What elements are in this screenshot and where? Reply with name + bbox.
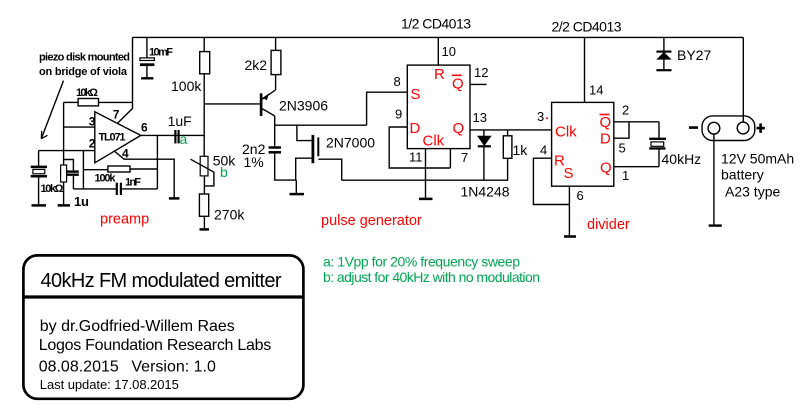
ground (pin 4) <box>169 197 180 200</box>
flip-flop U2 2/2 CD4013 box <box>552 102 614 186</box>
svg-text:2: 2 <box>622 103 629 118</box>
svg-text:BY27: BY27 <box>677 47 711 63</box>
svg-text:by dr.Godfried-Willem Raes: by dr.Godfried-Willem Raes <box>40 318 235 335</box>
ground (divider) <box>564 235 576 238</box>
svg-text:R: R <box>434 66 445 83</box>
resistor 100k (from rail) <box>200 37 210 156</box>
resistor 10kO feedback <box>64 99 133 106</box>
op-amp U3 TL071 <box>95 112 141 163</box>
svg-text:10kΩ: 10kΩ <box>76 87 98 99</box>
piezo disk annotation arrow <box>41 81 63 139</box>
wire pin 4 to ground <box>115 152 174 198</box>
label pin 3 (U2) <box>546 117 548 119</box>
wire op-amp pin 2 <box>39 150 95 152</box>
svg-text:10kΩ: 10kΩ <box>41 183 64 195</box>
title box <box>23 255 303 398</box>
flip-flop U1 1/2 CD4013 box <box>407 65 470 149</box>
svg-text:2N7000: 2N7000 <box>326 135 375 151</box>
svg-text:10: 10 <box>442 44 456 59</box>
svg-text:08.08.2015: 08.08.2015 <box>39 359 119 376</box>
svg-text:11: 11 <box>409 150 423 165</box>
wire bottom rail (pulse generator) <box>342 179 508 181</box>
svg-text:Q: Q <box>600 114 612 131</box>
wire pin 7 <box>449 149 451 168</box>
resistor 10kO (input bias) <box>58 102 70 205</box>
wire pin 10 to rail <box>437 37 439 65</box>
wire op-amp pin 3 <box>64 126 95 128</box>
svg-text:D: D <box>410 120 421 137</box>
diode BY27 <box>656 37 671 70</box>
wire pin 9 D loop <box>389 127 450 168</box>
wire feedback vertical <box>156 135 158 189</box>
svg-text:S: S <box>411 86 421 103</box>
svg-text:40kHz: 40kHz <box>662 151 702 167</box>
svg-text:b: b <box>220 164 228 180</box>
wire pin 6 S to ground <box>568 186 570 235</box>
svg-text:40kHz FM modulated emitter: 40kHz FM modulated emitter <box>41 270 282 292</box>
svg-text:TL071: TL071 <box>99 132 126 144</box>
svg-text:1/2 CD4013: 1/2 CD4013 <box>401 16 471 32</box>
svg-text:6: 6 <box>141 121 148 135</box>
label battery minus <box>689 126 698 129</box>
wire pin 1 Q <box>614 166 659 168</box>
transistor Q2 2N7000 <box>296 125 342 180</box>
svg-text:2: 2 <box>89 137 96 151</box>
svg-text:3: 3 <box>89 115 96 129</box>
svg-text:on bridge of viola: on bridge of viola <box>39 66 128 78</box>
battery 12V A23 <box>702 116 755 141</box>
resistor 2k2 <box>271 37 281 90</box>
svg-text:1uF: 1uF <box>168 113 192 129</box>
capacitor 1uF <box>175 130 178 143</box>
wire top supply rail <box>133 36 744 38</box>
capacitor 10mF <box>140 37 155 78</box>
wire pin 13 to divider clk <box>470 129 552 131</box>
piezo disk element <box>31 151 47 206</box>
svg-text:a: a <box>180 131 188 147</box>
resistor 100k feedback <box>83 166 157 172</box>
svg-text:Last update: 17.08.2015: Last update: 17.08.2015 <box>40 377 179 392</box>
svg-text:a: 1Vpp for 20% frequency swee: a: 1Vpp for 20% frequency sweep <box>323 254 520 270</box>
capacitor 1nF <box>73 183 157 195</box>
wire pin 4 R loop <box>533 158 569 204</box>
svg-text:12V 50mAh: 12V 50mAh <box>721 151 794 167</box>
svg-text:6: 6 <box>577 188 584 203</box>
svg-text:12: 12 <box>474 65 488 80</box>
wire base of 2N3906 <box>204 103 260 105</box>
svg-text:1nF: 1nF <box>125 177 141 189</box>
wire pin 2 Qbar to resonator <box>614 121 659 123</box>
resistor 1k <box>503 130 512 180</box>
capacitor 1u <box>64 160 79 189</box>
svg-text:7: 7 <box>113 108 120 122</box>
svg-text:8: 8 <box>394 74 401 89</box>
wire to pin 8 S <box>367 92 408 125</box>
wire battery plus to rail <box>742 37 744 122</box>
svg-text:Clk: Clk <box>555 124 577 141</box>
svg-text:100k: 100k <box>171 78 202 94</box>
svg-text:1%: 1% <box>244 154 264 170</box>
label Qbar (U2) <box>600 114 612 131</box>
svg-text:Q: Q <box>453 120 465 137</box>
ground (pin 11) <box>419 198 433 201</box>
svg-text:4: 4 <box>540 143 547 158</box>
svg-text:S: S <box>564 165 574 182</box>
svg-text:270k: 270k <box>214 207 245 223</box>
wire 2N3906 collector node <box>275 116 367 125</box>
svg-text:9: 9 <box>395 107 402 122</box>
svg-text:100k: 100k <box>95 173 117 185</box>
svg-text:divider: divider <box>587 217 630 233</box>
label battery plus <box>757 123 765 132</box>
ground (2n2) <box>290 180 305 194</box>
svg-text:2k2: 2k2 <box>245 57 268 73</box>
svg-text:piezo disk mounted: piezo disk mounted <box>39 52 130 64</box>
wire pin 14 to rail <box>584 37 586 102</box>
svg-text:1k: 1k <box>513 142 529 158</box>
svg-text:2/2 CD4013: 2/2 CD4013 <box>552 19 622 35</box>
svg-text:5: 5 <box>619 141 626 156</box>
svg-text:1: 1 <box>622 168 629 183</box>
label Qbar (U1) <box>452 75 464 92</box>
transistor Q1 2N3906 <box>261 90 275 116</box>
wire inverting node vertical <box>82 151 84 189</box>
diode 1N4248 <box>478 130 491 180</box>
wire rail to op-amp pin 7 <box>118 37 133 123</box>
svg-text:battery: battery <box>721 167 764 183</box>
resonator 40kHz <box>649 122 666 167</box>
svg-text:A23 type: A23 type <box>725 184 780 200</box>
svg-text:7: 7 <box>461 150 468 165</box>
svg-text:4: 4 <box>122 147 129 161</box>
svg-text:1u: 1u <box>74 194 89 209</box>
svg-text:Clk: Clk <box>423 133 445 150</box>
svg-text:b: adjust for 40kHz with no mo: b: adjust for 40kHz with no modulation <box>323 269 540 285</box>
svg-text:3: 3 <box>537 109 544 124</box>
svg-text:Version: 1.0: Version: 1.0 <box>131 359 216 376</box>
wire op-amp output pin 6 <box>141 134 204 136</box>
potentiometer 50k <box>191 156 214 186</box>
wire pin 12 stub <box>470 83 487 85</box>
svg-text:Q: Q <box>452 76 464 93</box>
svg-text:10mF: 10mF <box>149 47 173 59</box>
wire pin 2 to pin 5 D loop <box>614 122 629 138</box>
svg-text:14: 14 <box>589 83 603 98</box>
capacitor 2n2 <box>269 125 297 180</box>
svg-text:2N3906: 2N3906 <box>279 98 328 114</box>
svg-text:Q: Q <box>600 160 612 177</box>
svg-text:Logos Foundation Research Labs: Logos Foundation Research Labs <box>39 337 272 354</box>
battery minus lead <box>709 134 722 226</box>
svg-text:pulse generator: pulse generator <box>321 213 422 229</box>
svg-text:preamp: preamp <box>100 212 149 228</box>
svg-text:D: D <box>600 131 611 148</box>
svg-text:13: 13 <box>473 110 487 125</box>
svg-text:1N4248: 1N4248 <box>461 184 510 200</box>
resistor 270k <box>199 176 209 230</box>
wire pin 11 to ground <box>425 149 427 198</box>
